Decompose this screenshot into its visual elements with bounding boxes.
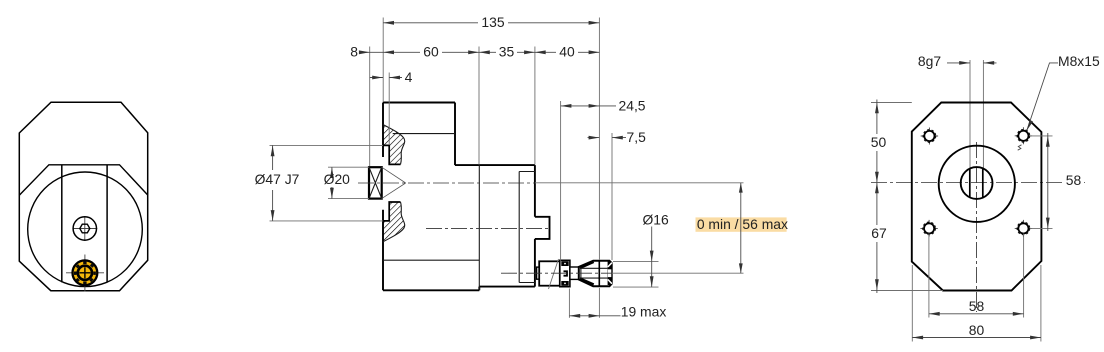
dim 8g7 [947, 62, 997, 64]
centerline output axis [501, 272, 612, 274]
svg-text:Ø20: Ø20 [324, 171, 351, 187]
centerline mid axis [426, 227, 550, 229]
gear teeth [69, 257, 101, 289]
gear outer (orange) [73, 260, 98, 285]
boss crosshair [73, 217, 98, 240]
flange recess edges [383, 145, 401, 221]
centerline input axis [358, 182, 535, 184]
gear inner ring [78, 266, 92, 280]
dim 19 max [569, 315, 655, 317]
shaft neck [570, 267, 579, 279]
svg-text:8g7: 8g7 [918, 53, 941, 69]
boss hexagon [80, 224, 90, 233]
hatch lower [383, 202, 405, 242]
right octagon flange [912, 103, 1042, 291]
output shaft cylinder [539, 261, 560, 285]
svg-text:19 max: 19 max [621, 304, 667, 320]
dim 135 [383, 22, 599, 24]
svg-text:M8x15: M8x15 [1058, 53, 1100, 69]
input coupling crossed rect [369, 167, 382, 198]
svg-text:0 min / 56 max: 0 min / 56 max [697, 216, 788, 232]
break line upper [383, 125, 405, 165]
svg-text:4: 4 [405, 69, 413, 85]
svg-text:8: 8 [350, 44, 358, 60]
svg-text:35: 35 [499, 44, 515, 60]
housing joint [478, 165, 480, 290]
dim row: 8 / 60 / 35 / 40 [362, 51, 383, 53]
dim 7,5 [588, 137, 627, 139]
coupling cone [382, 167, 406, 198]
bolt holes [920, 127, 1032, 237]
centerline vertical [976, 142, 978, 312]
svg-text:135: 135 [481, 14, 504, 30]
boss circle D47 [939, 146, 1015, 222]
8g7 extension lines [969, 60, 971, 168]
svg-text:60: 60 [423, 44, 439, 60]
dim D20 [331, 167, 333, 198]
dim 24,5 [561, 105, 616, 107]
hatch upper [383, 125, 405, 165]
svg-text:58: 58 [969, 298, 985, 314]
inner line bottom [383, 259, 479, 261]
output shaft collar [537, 267, 540, 279]
diagonal thin line on cylinder [549, 259, 559, 289]
svg-text:Ø47 J7: Ø47 J7 [255, 171, 300, 187]
spline section [579, 261, 612, 287]
extension lines [369, 47, 371, 167]
svg-text:67: 67 [871, 225, 887, 241]
svg-text:24,5: 24,5 [619, 97, 646, 113]
inner line top [393, 133, 455, 135]
left dims 50 / 67 [871, 103, 943, 291]
break line lower [383, 202, 405, 242]
housing outline [383, 103, 550, 291]
label M8x15 leader [1027, 63, 1058, 131]
dim 0 min / 56 max [696, 217, 787, 231]
left view chord left [61, 165, 63, 282]
bottom dim 58 [929, 234, 1024, 318]
cover plate [519, 172, 535, 283]
centerline horizontal [871, 182, 1085, 184]
dim D47 J7 [272, 145, 274, 221]
left view inner flange outline [19, 165, 147, 195]
left view big circle [28, 172, 143, 287]
tongue flats [970, 169, 983, 198]
svg-text:7,5: 7,5 [627, 129, 647, 145]
svg-text:58: 58 [1066, 172, 1082, 188]
bottom dim 80 [912, 265, 1041, 342]
svg-text:40: 40 [559, 44, 575, 60]
left view chord right [106, 165, 108, 283]
right dim 58 [1030, 136, 1053, 229]
boss circle [73, 217, 96, 240]
gear center cross [79, 267, 90, 278]
svg-text:50: 50 [871, 134, 887, 150]
gear crosshair [66, 255, 104, 292]
svg-text:80: 80 [969, 322, 985, 338]
left view outer octagon housing [19, 102, 147, 291]
svg-text:Ø16: Ø16 [642, 212, 669, 228]
bore circle D20 [961, 167, 993, 199]
snap ring section [560, 260, 570, 286]
dim 4 [370, 77, 402, 79]
